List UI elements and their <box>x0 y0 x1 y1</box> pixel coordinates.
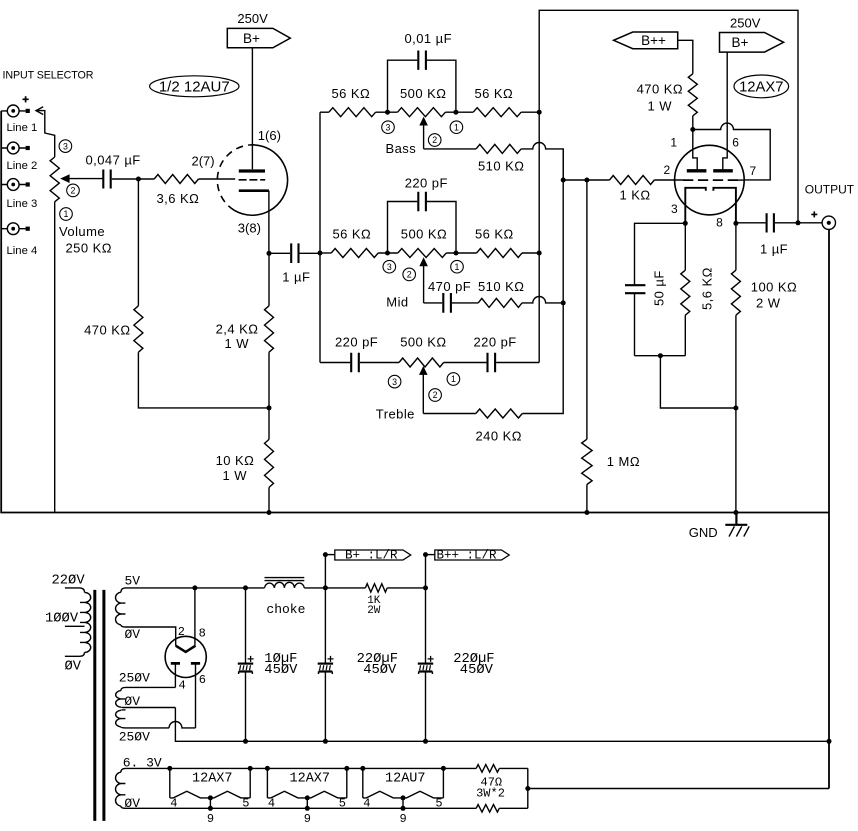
capacitor 10uF 450V <box>238 588 254 741</box>
mid wiper <box>419 257 428 303</box>
resistor 1 K <box>610 176 655 185</box>
svg-text:5: 5 <box>242 796 249 810</box>
svg-text:45ØV: 45ØV <box>264 662 298 678</box>
svg-text:choke: choke <box>266 602 305 617</box>
wire cathode to 100K foot <box>660 356 736 408</box>
U2 grid <box>683 179 738 181</box>
wire mid row right <box>522 252 539 254</box>
label 100 KOhm <box>751 279 797 294</box>
svg-text:2W: 2W <box>367 605 381 617</box>
svg-text:500 KΩ: 500 KΩ <box>400 334 446 349</box>
svg-text:5V: 5V <box>125 573 141 588</box>
resistor 3,6 K <box>154 175 198 184</box>
svg-text:9: 9 <box>207 812 214 826</box>
heater 12AX7 first pins <box>170 796 249 826</box>
label 0,047 uF <box>86 153 141 168</box>
label 500K mid <box>401 227 447 242</box>
node cathode-1uF <box>267 251 272 256</box>
svg-text:12AX7: 12AX7 <box>192 771 233 786</box>
node 100K-ground <box>733 510 738 515</box>
resistor 56 K bass left <box>329 108 376 117</box>
label pin 2 <box>664 163 671 177</box>
capacitor 1 uF output <box>736 213 798 232</box>
label 240 KOhm <box>476 428 522 443</box>
svg-text:50 µF: 50 µF <box>652 270 667 306</box>
capacitor 220 pF mid <box>388 192 457 253</box>
resistor 5,6 K <box>681 223 690 355</box>
svg-text:0,01 µF: 0,01 µF <box>405 31 453 46</box>
svg-text:470 pF: 470 pF <box>428 279 471 294</box>
wire 1K to grid <box>654 179 683 181</box>
wire fb vertical <box>562 149 564 303</box>
input jack Line 2 <box>1 142 30 154</box>
capacitor 220uF 450V second bottom node <box>423 739 428 744</box>
svg-text:1 µF: 1 µF <box>760 241 788 256</box>
svg-text:B++ :L/R: B++ :L/R <box>437 548 498 562</box>
svg-text:1 MΩ: 1 MΩ <box>607 454 640 469</box>
capacitor 50 uF <box>625 223 685 355</box>
label Treble <box>376 406 415 421</box>
svg-text:240 KΩ: 240 KΩ <box>476 428 522 443</box>
mid terminal 1 <box>451 260 464 273</box>
svg-text:3: 3 <box>386 122 391 132</box>
treble wiper <box>419 366 428 414</box>
B+ flag 250V <box>227 28 290 47</box>
svg-text:12AX7: 12AX7 <box>739 80 783 96</box>
capacitor 0,047 uF <box>103 170 138 189</box>
potentiometer Treble 500 K <box>399 358 444 367</box>
capacitor 220uF 450V first label <box>357 651 398 678</box>
label 5V <box>125 573 141 588</box>
wire cathode bottom <box>635 355 686 357</box>
svg-text:4: 4 <box>363 796 370 810</box>
label choke <box>266 602 305 617</box>
label 510K mid <box>478 279 524 294</box>
U2 plate left <box>687 169 707 172</box>
svg-text:45ØV: 45ØV <box>363 662 397 678</box>
label 510K bass <box>478 158 524 173</box>
label Line 1 <box>7 122 38 134</box>
svg-text:250V: 250V <box>237 11 268 26</box>
wire rectifier heater 0V <box>126 627 176 646</box>
pot terminal 1 <box>60 208 73 221</box>
node plate1-470K <box>690 127 695 132</box>
svg-text:ØV: ØV <box>124 694 140 709</box>
svg-text:5: 5 <box>435 796 442 810</box>
svg-text:2(7): 2(7) <box>192 154 215 169</box>
wire signal line <box>563 179 609 181</box>
label 1 W c <box>648 98 673 113</box>
svg-text:510 KΩ: 510 KΩ <box>478 158 524 173</box>
svg-text:2 W: 2 W <box>756 295 781 310</box>
wire to output jack <box>798 222 822 224</box>
heater 12AX7 second label <box>290 771 331 786</box>
wire 470K to plate <box>692 116 694 130</box>
svg-text:8: 8 <box>199 626 206 640</box>
node mid 1 <box>454 251 459 256</box>
node pin8 <box>733 221 738 226</box>
resistor 510 K bass <box>476 144 521 153</box>
rectifier tube envelope <box>165 636 206 677</box>
svg-text:56 KΩ: 56 KΩ <box>333 227 372 242</box>
potentiometer Bass 500 K <box>398 108 446 117</box>
wire NFB pin1-pin7 <box>693 123 770 180</box>
resistor 510 K mid <box>478 298 522 307</box>
bass terminal 3 <box>382 121 395 134</box>
ground bus <box>1 111 829 513</box>
label 500K bass <box>400 86 446 101</box>
label 220 pF mid <box>405 175 448 190</box>
B+ flag right <box>720 33 784 53</box>
heater 12AX7 second pins <box>268 796 346 826</box>
capacitor 220uF 450V second label <box>453 651 494 678</box>
svg-text:1/2 12AU7: 1/2 12AU7 <box>159 78 230 95</box>
capacitor 470 pF <box>424 293 479 313</box>
svg-text:1 KΩ: 1 KΩ <box>620 187 651 202</box>
heater 12AX7 first label <box>192 771 233 786</box>
treble terminal 2 <box>429 389 442 402</box>
label 56K bass left <box>332 86 371 101</box>
node output junction <box>796 220 801 225</box>
wire rect pin6 <box>195 663 197 728</box>
svg-text:1: 1 <box>455 262 460 272</box>
wire treble to fb <box>522 303 563 414</box>
svg-text:2: 2 <box>433 390 438 400</box>
wire B+ to pin6 <box>723 52 727 169</box>
resistor 1 M <box>582 180 592 513</box>
ground symbol <box>725 513 749 537</box>
svg-text:4: 4 <box>179 679 186 693</box>
svg-text:3W*2: 3W*2 <box>476 786 505 800</box>
svg-text:5: 5 <box>339 796 346 810</box>
label 0,01 uF <box>405 31 453 46</box>
svg-text:1 µF: 1 µF <box>282 269 310 284</box>
svg-text:470 KΩ: 470 KΩ <box>637 82 683 97</box>
label rect pin4 <box>179 679 186 693</box>
resistor 56 K bass right <box>473 108 521 117</box>
svg-text:250 KΩ: 250 KΩ <box>66 241 112 256</box>
tone left bus <box>319 112 321 362</box>
heater 12AU7 <box>363 768 444 808</box>
label pin 1(6) <box>258 128 281 143</box>
B++ flag <box>614 32 678 49</box>
svg-text:2: 2 <box>178 625 185 639</box>
svg-text:3: 3 <box>63 141 68 151</box>
capacitor 10uF 450V label <box>264 651 298 678</box>
svg-text:7: 7 <box>750 164 757 178</box>
resistor 1K 2W <box>365 584 387 592</box>
U2 grid lead right <box>738 179 744 181</box>
rectifier plates <box>171 662 200 665</box>
label 220V <box>52 573 86 589</box>
U1 plate <box>239 169 265 172</box>
label 1 W a <box>225 336 250 351</box>
resistor 56 K mid left <box>331 249 378 258</box>
label Line 4 <box>7 245 38 257</box>
tone right bus <box>539 10 798 362</box>
label 0V 5V-winding <box>125 627 141 642</box>
label pin 1 <box>670 136 677 150</box>
label 0V HV <box>124 694 140 709</box>
svg-text:B+ :L/R: B+ :L/R <box>345 548 398 562</box>
resistor 240 K <box>476 409 523 418</box>
resistor 10 K <box>265 408 274 513</box>
svg-text:Line 2: Line 2 <box>7 160 38 172</box>
svg-text:2: 2 <box>71 186 76 196</box>
heater 12AX7 second <box>267 768 346 808</box>
svg-text:2,4 KΩ: 2,4 KΩ <box>216 321 259 336</box>
resistor 47 ohm top <box>476 765 499 773</box>
transformer primary <box>65 588 91 656</box>
label Bass <box>386 141 417 156</box>
label Line 3 <box>7 198 38 210</box>
svg-text:3: 3 <box>392 377 397 387</box>
heater 12AU7 nodes <box>360 766 446 811</box>
capacitor 220uF 450V first bottom node <box>323 739 328 744</box>
svg-text:Mid: Mid <box>386 294 408 309</box>
heater 12AX7 first <box>170 768 250 808</box>
capacitor 1 uF coupling <box>269 243 320 263</box>
output jack <box>822 216 835 229</box>
svg-text:B++: B++ <box>641 33 666 48</box>
svg-text:100 KΩ: 100 KΩ <box>751 279 797 294</box>
svg-text:1: 1 <box>454 122 459 132</box>
wire cathode down <box>268 191 270 254</box>
input jack Line 1 <box>1 105 30 117</box>
label 250 KOhm <box>66 241 112 256</box>
svg-text:2: 2 <box>407 270 412 280</box>
label pin 2(7) <box>192 154 215 169</box>
label 3,6 KOhm <box>157 191 200 206</box>
bass terminal 1 <box>450 121 463 134</box>
transformer 5V winding <box>116 588 126 627</box>
heater 12AX7 first nodes <box>167 766 252 811</box>
U2 cathode right <box>713 188 736 224</box>
svg-text:1: 1 <box>64 209 69 219</box>
wire treble wiper <box>423 413 476 415</box>
label 220 pF treble right <box>474 334 517 349</box>
treble terminal 1 <box>447 373 460 386</box>
svg-text:Line 1: Line 1 <box>7 122 38 134</box>
label Line 2 <box>7 160 38 172</box>
wire mid a <box>378 252 398 254</box>
label 1 KOhm <box>620 187 651 202</box>
wire mid row left <box>320 252 331 254</box>
svg-text:Treble: Treble <box>376 406 415 421</box>
title INPUT SELECTOR <box>3 70 94 82</box>
heater 12AU7 pins <box>363 796 442 826</box>
heater top rail <box>126 767 528 769</box>
wire bass b <box>445 111 473 113</box>
U1 cathode <box>239 189 269 192</box>
resistor 56 K mid right <box>477 249 522 258</box>
node heater bias <box>525 786 530 791</box>
node mid 3 <box>385 251 390 256</box>
wire bass row left <box>320 111 329 113</box>
resistor 47 ohm bottom <box>476 805 499 813</box>
svg-text:8: 8 <box>716 216 723 230</box>
svg-text:510 KΩ: 510 KΩ <box>478 279 524 294</box>
heater 12AX7 second nodes <box>265 766 349 811</box>
node 470K-2.4K <box>267 405 272 410</box>
wire B+ to plate <box>251 48 253 169</box>
flag B++ L/R <box>423 548 509 588</box>
node 10K-ground <box>267 510 272 515</box>
label 470 KOhm 1W <box>637 82 683 97</box>
label 2W <box>367 605 381 617</box>
svg-text:OUTPUT: OUTPUT <box>805 183 855 197</box>
label rect pin6 <box>199 673 206 687</box>
capacitor 10uF 450V bottom node <box>243 739 248 744</box>
capacitor 220uF 450V second <box>418 588 434 741</box>
label 3W*2 <box>476 786 505 800</box>
capacitor 220uF 450V first top node <box>323 585 328 590</box>
bass wiper <box>419 117 428 149</box>
label 500K treble <box>400 334 446 349</box>
label pin 3 <box>671 202 678 216</box>
triode U2 12AX7 envelope <box>675 145 745 215</box>
svg-text:1(6): 1(6) <box>258 128 281 143</box>
treble row <box>320 353 539 372</box>
svg-text:45ØV: 45ØV <box>460 662 494 678</box>
wire mid b <box>446 252 476 254</box>
label 56K bass right <box>475 86 514 101</box>
plus mark at Line 1 <box>23 96 29 102</box>
svg-text:INPUT SELECTOR: INPUT SELECTOR <box>3 70 94 82</box>
resistor 2,4 K <box>265 253 274 408</box>
label 0V primary <box>65 659 82 675</box>
svg-text:9: 9 <box>304 812 311 826</box>
label pin 8 <box>716 216 723 230</box>
svg-text:ØV: ØV <box>125 627 141 642</box>
wire to 3.6K <box>138 178 154 180</box>
node mid-bus <box>537 251 542 256</box>
oval 12AX7 <box>734 75 789 98</box>
svg-text:56 KΩ: 56 KΩ <box>475 86 514 101</box>
wire HV bottom hop <box>169 722 195 728</box>
svg-text:B+: B+ <box>732 35 749 50</box>
svg-text:4: 4 <box>170 796 177 810</box>
node psu rail right <box>827 739 832 744</box>
label Mid <box>386 294 408 309</box>
label 250V right <box>730 16 761 31</box>
treble terminal 3 <box>388 375 401 388</box>
label 1K <box>367 595 381 607</box>
mid terminal 3 <box>383 260 396 273</box>
label 220 pF treble left <box>335 334 378 349</box>
node pin8 rect <box>192 585 197 590</box>
U1 grid <box>239 179 266 181</box>
svg-text:22ØV: 22ØV <box>52 573 86 589</box>
label 2 W <box>756 295 781 310</box>
svg-text:12AU7: 12AU7 <box>385 771 426 786</box>
U2 cathode left <box>685 188 706 224</box>
selector wiper arrow <box>36 107 55 157</box>
label 56K mid right <box>475 227 514 242</box>
input jack Line 4 <box>1 223 30 235</box>
label 1 uF output <box>760 241 788 256</box>
node signal tap <box>561 178 566 183</box>
label 2,4 KOhm <box>216 321 259 336</box>
label 1 uF coupling <box>282 269 310 284</box>
potentiometer Volume 250K <box>50 157 59 202</box>
resistor 100 K 2W <box>731 223 740 512</box>
capacitor 220uF 450V second top node <box>423 585 428 590</box>
svg-text:56 KΩ: 56 KΩ <box>475 227 514 242</box>
node cathode join <box>658 353 663 358</box>
node 100K foot <box>733 406 738 411</box>
capacitor 10uF 450V top node <box>243 585 248 590</box>
triode U1 1/2 12AU7 envelope <box>217 145 287 215</box>
label 1 MOhm <box>607 454 640 469</box>
svg-text:6: 6 <box>199 673 206 687</box>
label 100V <box>45 611 79 627</box>
node 1M-ground <box>584 510 589 515</box>
label 250V top <box>119 670 150 685</box>
svg-text:GND: GND <box>689 525 718 540</box>
label 250V left <box>237 11 268 26</box>
node bass 1 <box>453 110 458 115</box>
node 1M tap <box>584 178 589 183</box>
svg-text:500 KΩ: 500 KΩ <box>401 227 447 242</box>
U2 plate right <box>713 169 733 172</box>
svg-text:3: 3 <box>671 202 678 216</box>
svg-text:220 pF: 220 pF <box>335 334 378 349</box>
label 56K mid left <box>333 227 372 242</box>
wire pot bottom to ground <box>54 202 56 513</box>
svg-text:250V: 250V <box>730 16 761 31</box>
svg-text:1 W: 1 W <box>648 98 673 113</box>
svg-text:Volume: Volume <box>59 224 105 239</box>
bass terminal 2 <box>428 134 441 147</box>
svg-text:10 KΩ: 10 KΩ <box>216 453 255 468</box>
wire bass 510K hop <box>521 143 563 181</box>
wire heater bias join <box>528 768 829 808</box>
wire bass a <box>376 111 398 113</box>
svg-text:0,047 µF: 0,047 µF <box>86 153 141 168</box>
svg-text:B+: B+ <box>243 31 260 46</box>
transformer 6.3V winding <box>116 768 126 808</box>
label pin 3(8) <box>238 221 261 236</box>
wire mid 510K hop <box>522 297 563 303</box>
label 1 W b <box>223 468 248 483</box>
svg-text:9: 9 <box>400 812 407 826</box>
node bass-bus <box>537 110 542 115</box>
flag B+ L/R <box>323 548 411 588</box>
input jack Line 3 <box>1 179 30 191</box>
svg-text:3,6 KΩ: 3,6 KΩ <box>157 191 200 206</box>
resistor 470 K <box>134 306 143 352</box>
mid terminal 2 <box>403 268 416 281</box>
label 250V bottom <box>119 729 150 744</box>
label 5,6 KOhm <box>700 267 715 310</box>
label 47 ohm <box>481 776 503 790</box>
wire B++ to 470K <box>678 40 693 74</box>
label rect pin2 <box>178 625 185 639</box>
wire output ground <box>828 230 830 789</box>
capacitor 0,01 uF <box>388 51 456 113</box>
wire rect pin4 <box>174 663 176 687</box>
label 470 KOhm <box>84 323 130 338</box>
svg-text:1 W: 1 W <box>225 336 250 351</box>
label 6.3V <box>123 755 162 770</box>
potentiometer Mid 500 K <box>398 249 447 258</box>
svg-text:500 KΩ: 500 KΩ <box>400 86 446 101</box>
svg-text:3: 3 <box>387 262 392 272</box>
svg-text:25ØV: 25ØV <box>119 729 150 744</box>
label GND <box>689 525 718 540</box>
wire bass wiper to 510K <box>424 148 476 150</box>
